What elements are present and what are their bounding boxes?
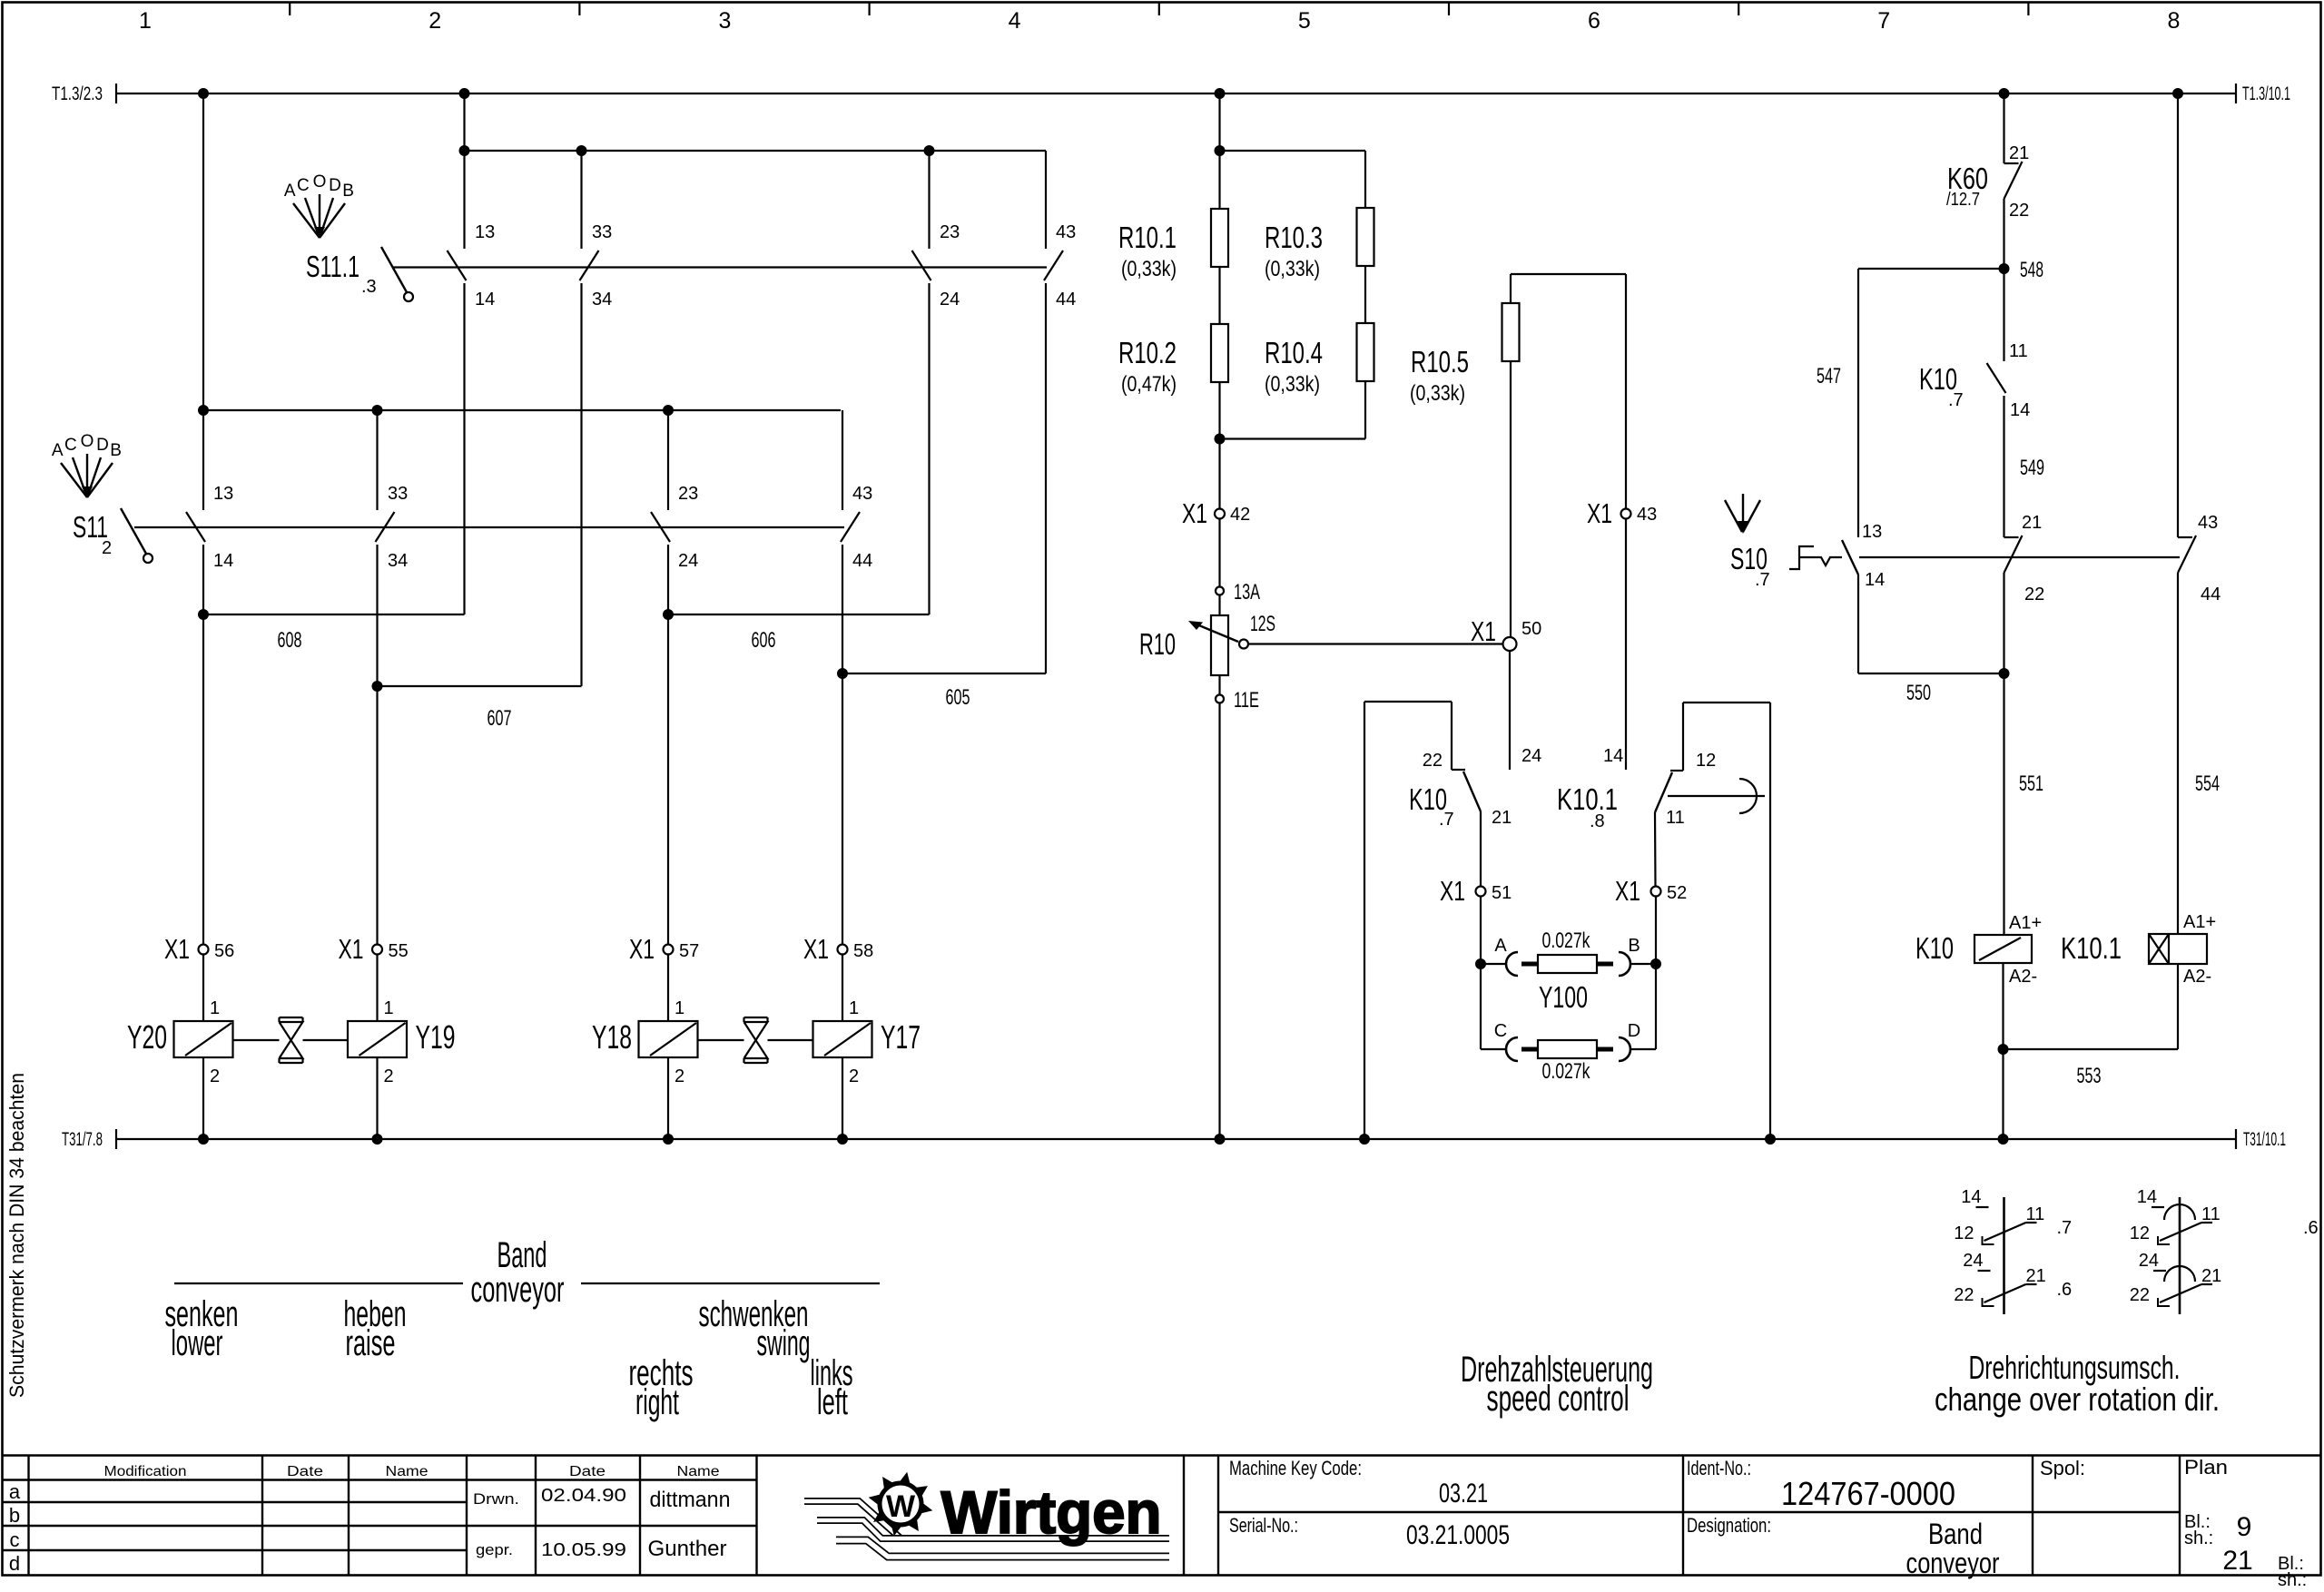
contact 43-44 right [2177, 93, 2179, 537]
svg-text:gepr.: gepr. [476, 1541, 513, 1558]
svg-text:D: D [329, 176, 341, 195]
svg-text:A2-: A2- [2009, 967, 2037, 987]
svg-text:R10: R10 [1139, 627, 1176, 661]
svg-text:551: 551 [2019, 771, 2043, 796]
svg-text:33: 33 [592, 222, 612, 242]
svg-text:2: 2 [428, 8, 441, 34]
svg-text:2: 2 [102, 538, 112, 558]
svg-text:12S: 12S [1250, 612, 1275, 636]
svg-text:11: 11 [2201, 1204, 2221, 1224]
wire 606 [667, 545, 669, 945]
svg-text:14: 14 [1603, 746, 1623, 766]
interconnect R10.2/R10.4 bottom [1364, 381, 1366, 439]
wire 554 [2177, 573, 2179, 934]
svg-text:Y19: Y19 [416, 1018, 456, 1056]
contact K10.1 12-11 [1682, 703, 1684, 771]
svg-text:dittmann: dittmann [650, 1488, 731, 1512]
svg-text:T1.3/10.1: T1.3/10.1 [2242, 84, 2290, 104]
svg-text:1: 1 [675, 998, 684, 1018]
svg-text:left: left [817, 1382, 848, 1422]
svg-text:03.21.0005: 03.21.0005 [1406, 1520, 1510, 1550]
svg-text:14: 14 [2010, 400, 2030, 420]
terminal X1:58 [838, 945, 848, 955]
terminal X1:57 [664, 945, 674, 955]
svg-text:O: O [81, 432, 94, 451]
svg-text:5: 5 [1298, 8, 1311, 34]
svg-text:X1: X1 [629, 933, 655, 965]
svg-text:58: 58 [853, 941, 873, 961]
svg-text:.7: .7 [1755, 570, 1770, 590]
svg-text:2: 2 [675, 1066, 684, 1086]
svg-text:43: 43 [852, 484, 872, 504]
svg-text:X1: X1 [1587, 497, 1612, 529]
svg-text:Gunther: Gunther [648, 1537, 727, 1561]
svg-text:B: B [1628, 936, 1640, 956]
svg-text:44: 44 [852, 551, 872, 571]
svg-text:R10.2: R10.2 [1118, 336, 1177, 369]
svg-text:22: 22 [2009, 201, 2029, 221]
svg-text:1: 1 [849, 998, 859, 1018]
switch S11.1 row line [393, 266, 1047, 268]
wire R10.5 top to X1:43 column [1510, 274, 1512, 303]
svg-text:22: 22 [2130, 1285, 2150, 1305]
svg-text:.7: .7 [2057, 1218, 2073, 1238]
svg-text:Spol:: Spol: [2040, 1457, 2085, 1479]
relay coil K10 [1974, 935, 2032, 963]
svg-text:Plan: Plan [2184, 1456, 2228, 1479]
svg-text:55: 55 [389, 941, 409, 961]
svg-text:23: 23 [678, 484, 698, 504]
svg-text:43: 43 [2198, 513, 2218, 533]
wire bus to resistor chain [1218, 93, 1220, 209]
relay coil K10.1 [2149, 934, 2207, 964]
svg-text:24: 24 [678, 551, 698, 571]
contact S11 43-44 [842, 410, 843, 510]
svg-text:12: 12 [1696, 751, 1716, 771]
valve coil Y19 [348, 1021, 407, 1057]
svg-text:43: 43 [1637, 505, 1657, 525]
contact S10 13-14 [1842, 540, 1858, 575]
svg-text:R10.5: R10.5 [1411, 345, 1469, 378]
resistor R10.2 [1218, 267, 1220, 324]
svg-text:44: 44 [1056, 290, 1076, 310]
svg-text:.6: .6 [2303, 1218, 2319, 1238]
svg-text:34: 34 [388, 551, 408, 571]
svg-text:A: A [1494, 936, 1507, 956]
svg-text:33: 33 [388, 484, 408, 504]
svg-text:605: 605 [946, 685, 970, 710]
svg-text:22: 22 [1954, 1285, 1974, 1305]
svg-text:03.21: 03.21 [1439, 1479, 1488, 1508]
terminal X1:43 [1621, 509, 1631, 519]
terminal X1:52 [1651, 887, 1661, 897]
svg-text:a: a [9, 1480, 21, 1503]
svg-text:conveyor: conveyor [471, 1270, 565, 1310]
svg-text:21: 21 [2022, 513, 2042, 533]
svg-text:Schutzvermerk nach DIN 34 beac: Schutzvermerk nach DIN 34 beachten [5, 1073, 28, 1398]
svg-text:44: 44 [2201, 585, 2221, 604]
svg-text:T1.3/2.3: T1.3/2.3 [52, 84, 103, 104]
svg-text:Name: Name [386, 1464, 428, 1479]
svg-text:11E: 11E [1234, 688, 1259, 712]
svg-text:24: 24 [1521, 746, 1541, 766]
svg-text:56: 56 [214, 941, 234, 961]
wire 608 [202, 545, 204, 945]
svg-text:554: 554 [2195, 771, 2220, 796]
S11 selector fan ACODB [61, 463, 87, 497]
wire 547 [1858, 268, 2004, 270]
junction dots top bus [198, 88, 209, 99]
svg-text:547: 547 [1817, 364, 1841, 388]
junction dots bottom bus left [198, 1134, 209, 1145]
svg-text:21: 21 [2222, 1546, 2252, 1576]
svg-text:.8: .8 [1590, 811, 1605, 831]
svg-text:Serial-No.:: Serial-No.: [1229, 1514, 1298, 1537]
title block right grid [1183, 1456, 1185, 1576]
svg-text:34: 34 [592, 290, 612, 310]
svg-text:/12.7: /12.7 [1946, 190, 1980, 210]
svg-text:22: 22 [2024, 585, 2044, 604]
svg-text:Date: Date [287, 1464, 323, 1479]
switch S10 actuator [1742, 494, 1744, 525]
svg-text:Modification: Modification [104, 1464, 187, 1479]
svg-text:Drwn.: Drwn. [473, 1490, 519, 1508]
terminal X1:42 [1215, 509, 1225, 519]
svg-text:A1+: A1+ [2009, 913, 2042, 933]
svg-text:42: 42 [1230, 505, 1250, 525]
svg-text:(0,33k): (0,33k) [1265, 372, 1320, 397]
svg-text:6: 6 [1588, 8, 1600, 34]
svg-text:S11.1: S11.1 [306, 250, 359, 283]
svg-text:14: 14 [1865, 570, 1885, 590]
contact K10.1 21-22 (S10 row) [2004, 536, 2019, 538]
svg-text:lower: lower [172, 1323, 223, 1363]
svg-text:sh.:: sh.: [2278, 1570, 2307, 1587]
wire 607 [376, 545, 378, 945]
svg-text:B: B [342, 182, 354, 201]
svg-text:14: 14 [213, 551, 233, 571]
Y100 C-D winding [1480, 964, 1482, 1049]
svg-text:14: 14 [475, 290, 495, 310]
svg-text:549: 549 [2020, 456, 2044, 480]
contact K10 22-21 [1452, 769, 1465, 771]
svg-text:X1: X1 [803, 933, 829, 965]
terminal X1:56 [199, 945, 209, 955]
svg-text:24: 24 [2139, 1251, 2159, 1271]
interconnect R10.1/R10.3 top [1220, 150, 1366, 152]
svg-text:Wirtgen: Wirtgen [941, 1479, 1162, 1546]
svg-text:R10.1: R10.1 [1118, 221, 1177, 254]
svg-text:Y18: Y18 [592, 1018, 632, 1056]
svg-text:.7: .7 [1439, 810, 1454, 830]
svg-text:24: 24 [940, 290, 960, 310]
svg-text:Designation:: Designation: [1687, 1514, 1771, 1537]
svg-text:D: D [1628, 1021, 1640, 1041]
svg-text:A: A [52, 441, 64, 460]
svg-text:1: 1 [210, 998, 220, 1018]
interconnect line 452 [203, 409, 841, 411]
svg-text:A: A [284, 182, 296, 201]
switch S11 actuator blade [121, 508, 146, 554]
svg-text:K10.1: K10.1 [2061, 931, 2122, 965]
svg-text:Ident-No.:: Ident-No.: [1687, 1457, 1751, 1479]
svg-text:2: 2 [849, 1066, 859, 1086]
svg-text:right: right [635, 1382, 679, 1422]
svg-text:D: D [96, 436, 109, 455]
title block top line [3, 1454, 2322, 1456]
svg-text:Machine Key Code:: Machine Key Code: [1229, 1457, 1362, 1479]
svg-text:.3: .3 [361, 277, 377, 297]
contact S11 33-34 [376, 410, 378, 510]
svg-text:A1+: A1+ [2183, 912, 2216, 932]
wire 12S to X1:50 [1248, 643, 1503, 644]
contact S11.1 33-34 [580, 151, 582, 249]
svg-text:.7: .7 [1948, 390, 1964, 410]
valve coil Y17 [813, 1021, 872, 1057]
svg-text:X1: X1 [1182, 497, 1207, 529]
svg-text:9: 9 [2237, 1512, 2252, 1542]
svg-text:K10: K10 [1915, 931, 1954, 965]
throttle valve between Y20 and Y19 [280, 1017, 303, 1018]
svg-text:21: 21 [2201, 1266, 2221, 1286]
throttle valve between Y18 and Y17 [744, 1017, 768, 1018]
svg-text:R10.3: R10.3 [1265, 221, 1323, 254]
svg-text:W: W [886, 1489, 916, 1524]
wire R10.5 bottom to X1:50 [1510, 361, 1512, 644]
resistor R10.4 [1364, 266, 1366, 323]
wire 550 [1857, 575, 1859, 673]
svg-text:23: 23 [940, 222, 960, 242]
svg-text:13: 13 [1862, 522, 1882, 542]
Y100 A-B winding [1475, 958, 1486, 969]
wire 605 [842, 545, 843, 945]
svg-text:02.04.90: 02.04.90 [541, 1486, 626, 1506]
contact S11.1 43-44 [1045, 151, 1047, 249]
svg-text:C: C [64, 436, 77, 455]
svg-text:.6: .6 [2057, 1280, 2073, 1300]
svg-text:24: 24 [1963, 1251, 1983, 1271]
svg-text:8: 8 [2167, 8, 2180, 34]
svg-text:1: 1 [139, 8, 152, 34]
svg-text:550: 550 [1906, 681, 1931, 705]
svg-text:51: 51 [1492, 883, 1512, 903]
svg-text:O: O [313, 172, 327, 192]
svg-text:(0,33k): (0,33k) [1265, 257, 1320, 281]
node 548 [1999, 263, 2010, 274]
resistor R10.5 [1502, 303, 1520, 361]
svg-text:2: 2 [210, 1066, 220, 1086]
contact S11.1 23-24 [928, 151, 930, 249]
svg-text:change over rotation dir.: change over rotation dir. [1935, 1381, 2220, 1418]
svg-text:Name: Name [677, 1464, 720, 1479]
svg-text:X1: X1 [1471, 615, 1496, 647]
resistor R10.1 [1211, 209, 1228, 267]
svg-text:raise: raise [346, 1323, 396, 1363]
switch S11.1 actuator blade [381, 247, 407, 292]
svg-text:(0,33k): (0,33k) [1121, 257, 1177, 281]
svg-text:Band: Band [1928, 1518, 1983, 1550]
svg-text:T31/10.1: T31/10.1 [2243, 1129, 2286, 1150]
contact S11 13-14 [202, 93, 204, 510]
contact S11 23-24 [667, 410, 669, 510]
svg-text:2: 2 [384, 1066, 394, 1086]
resistor R10.3 [1357, 208, 1374, 266]
terminal X1:50 [1503, 637, 1517, 651]
svg-text:57: 57 [679, 941, 699, 961]
svg-text:R10.4: R10.4 [1265, 336, 1323, 369]
contact mirror K10.1 [2179, 1197, 2181, 1314]
svg-text:10.05.99: 10.05.99 [541, 1540, 626, 1560]
title block grid [27, 1456, 29, 1576]
svg-text:548: 548 [2020, 258, 2043, 282]
svg-text:11: 11 [1666, 808, 1685, 828]
svg-text:50: 50 [1521, 619, 1541, 639]
svg-text:13: 13 [213, 484, 233, 504]
svg-text:606: 606 [752, 628, 776, 653]
svg-text:B: B [110, 441, 122, 460]
svg-text:sh.:: sh.: [2184, 1528, 2213, 1548]
switch S11 row line [134, 526, 844, 528]
svg-text:conveyor: conveyor [1906, 1547, 2000, 1579]
svg-text:d: d [9, 1552, 20, 1575]
terminal X1:55 [372, 945, 382, 955]
K10.1 mechanical latch symbol [1668, 795, 1765, 797]
R10 wiper arrow 12S [1195, 624, 1238, 642]
svg-text:4: 4 [1009, 8, 1021, 34]
svg-text:X1: X1 [1615, 875, 1640, 907]
S10 F-handle [1789, 546, 1814, 569]
svg-text:21: 21 [2009, 143, 2029, 163]
svg-text:14: 14 [2137, 1187, 2157, 1207]
svg-text:0.027k: 0.027k [1542, 929, 1591, 953]
svg-text:12: 12 [2130, 1223, 2150, 1243]
svg-text:X1: X1 [339, 933, 364, 965]
contact K60 21-22 [2003, 93, 2004, 163]
contact S11.1 13-14 [463, 93, 465, 249]
svg-text:C: C [1494, 1021, 1507, 1041]
svg-text:3: 3 [718, 8, 731, 34]
junction dots line 166 [459, 145, 470, 156]
svg-text:(0,47k): (0,47k) [1121, 372, 1177, 397]
wire 553 [2004, 1048, 2179, 1050]
valve coil Y18 [639, 1021, 698, 1057]
svg-text:(0,33k): (0,33k) [1410, 381, 1465, 406]
svg-text:608: 608 [278, 628, 302, 653]
Wirtgen logo [804, 1472, 1169, 1557]
wire K10.1 12 to T31 [1683, 702, 1770, 703]
svg-text:K10.1: K10.1 [1557, 782, 1618, 816]
wire 551 [2003, 573, 2004, 934]
svg-text:553: 553 [2077, 1064, 2102, 1088]
contact mirror K10 [2003, 1197, 2005, 1314]
svg-text:11: 11 [2026, 1204, 2045, 1224]
svg-text:X1: X1 [164, 933, 190, 965]
svg-text:12: 12 [1954, 1223, 1974, 1243]
svg-text:A2-: A2- [2183, 967, 2211, 987]
svg-text:21: 21 [1492, 808, 1512, 828]
svg-text:1: 1 [384, 998, 394, 1018]
svg-text:c: c [10, 1528, 20, 1551]
svg-text:Y17: Y17 [881, 1018, 921, 1056]
potentiometer R10 [1211, 615, 1228, 675]
interconnect line 166 [465, 150, 1047, 152]
svg-text:X1: X1 [1440, 875, 1465, 907]
svg-text:7: 7 [1877, 8, 1890, 34]
svg-text:C: C [297, 176, 310, 195]
bus T1.3 top [116, 93, 2236, 94]
contact K10 11-14 (.7) [2003, 269, 2004, 361]
terminal X1:51 [1476, 887, 1486, 897]
svg-text:124767-0000: 124767-0000 [1781, 1475, 1955, 1512]
svg-text:b: b [9, 1504, 20, 1527]
svg-text:swing: swing [757, 1323, 811, 1363]
svg-text:Y100: Y100 [1539, 980, 1588, 1014]
svg-text:Y20: Y20 [127, 1018, 167, 1056]
svg-text:13: 13 [475, 222, 495, 242]
svg-text:21: 21 [2026, 1266, 2046, 1286]
svg-text:11: 11 [2009, 341, 2028, 361]
terminal 13A [1216, 587, 1224, 595]
bus T31 bottom [116, 1138, 2236, 1140]
svg-text:52: 52 [1667, 883, 1687, 903]
svg-text:speed control: speed control [1487, 1379, 1630, 1419]
valve coil Y20 [174, 1021, 233, 1057]
svg-text:22: 22 [1423, 751, 1443, 771]
wire 549 [2003, 396, 2004, 537]
switch S10 row line [1859, 556, 2180, 558]
svg-text:607: 607 [487, 706, 512, 731]
S11.1 selector fan ACODB [293, 203, 320, 238]
svg-text:43: 43 [1056, 222, 1076, 242]
column ruler ticks [289, 3, 290, 16]
wire T31 to K10 contact 22 [1364, 702, 1365, 1139]
svg-text:T31/7.8: T31/7.8 [62, 1129, 103, 1150]
svg-text:Date: Date [569, 1464, 606, 1479]
svg-text:13A: 13A [1234, 580, 1260, 604]
svg-text:0.027k: 0.027k [1542, 1059, 1591, 1084]
svg-text:14: 14 [1961, 1187, 1981, 1207]
wire 11E bottom [1218, 675, 1220, 695]
